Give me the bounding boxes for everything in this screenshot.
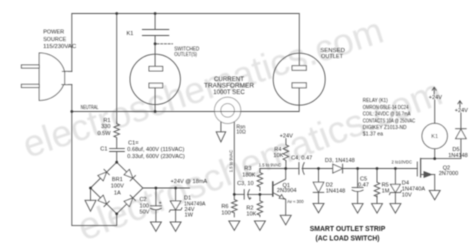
svg-text:RELAY (K1): RELAY (K1) (363, 98, 388, 104)
svg-text:CONTACTS 10A @ 250VAC: CONTACTS 10A @ 250VAC (363, 118, 415, 124)
svg-text:1.5 to 9VAC: 1.5 to 9VAC (259, 162, 281, 167)
svg-text:POWER: POWER (43, 29, 64, 35)
ground below R2 (254, 221, 265, 231)
junction +24V rail / C2 (155, 187, 158, 190)
svg-text:K1: K1 (127, 31, 134, 37)
resistor R4 10K (283, 143, 289, 161)
label C5 (358, 176, 369, 188)
label +24V relay (429, 95, 442, 101)
label +24V rail (171, 179, 208, 185)
svg-text:115/230VAC: 115/230VAC (43, 44, 76, 50)
label R1 (97, 118, 111, 137)
zener D1 1N4749A (169, 201, 182, 212)
wire R4 to collector node (285, 162, 287, 169)
label D4 (402, 181, 426, 199)
note relay spec (363, 98, 415, 138)
node Q1 collector (284, 167, 287, 170)
note C1 values (127, 141, 185, 160)
label BR1 (111, 177, 124, 196)
wire base node to C3 (234, 193, 244, 195)
svg-text:C3, 10: C3, 10 (237, 181, 253, 187)
svg-text:1.5 to 9VAC: 1.5 to 9VAC (229, 150, 234, 172)
label switched outlets (174, 47, 199, 58)
ground below C5 (352, 204, 363, 214)
wire relay coil to +24V (434, 100, 436, 123)
svg-text:+: + (159, 200, 162, 206)
watermark electroschematics.com lower (72, 72, 448, 246)
svg-text:0.68uf, 400V (115VAC): 0.68uf, 400V (115VAC) (127, 147, 184, 153)
wire R4 from +24V (285, 139, 287, 144)
label K1 contact (127, 31, 134, 37)
svg-text:SOURCE: SOURCE (43, 37, 66, 43)
ground below R5 (372, 204, 383, 214)
capacitor C4 0.47 (299, 163, 304, 175)
label D3 (325, 158, 355, 164)
svg-text:CURRENT: CURRENT (214, 77, 244, 83)
svg-text:+24V @ 18mA: +24V @ 18mA (171, 179, 208, 185)
relay coil K1 (422, 123, 447, 148)
wire plug hot stub (62, 70, 72, 72)
svg-text:0.5W: 0.5W (97, 131, 111, 137)
current transformer T1 core (214, 97, 240, 123)
wire CT secondary left (220, 122, 222, 132)
supply arrow +24V D5 (458, 101, 462, 107)
label R6 (221, 204, 230, 216)
svg-text:1W: 1W (185, 213, 194, 219)
callout dashed switched outlets (157, 43, 173, 45)
svg-text:180K: 180K (242, 172, 255, 178)
label R3 (242, 166, 255, 178)
wire C2 stub (155, 188, 157, 206)
wire D4 to ground (394, 193, 396, 204)
plus sign C2 (159, 200, 162, 206)
wire neutral vertical and bottom loop (72, 85, 117, 226)
plug prong upper (21, 65, 39, 68)
ground below C2 (150, 222, 161, 232)
svg-text:(AC LOAD SWITCH): (AC LOAD SWITCH) (316, 233, 380, 242)
svg-text:10Ω: 10Ω (236, 129, 246, 135)
switched outlet slot top (149, 66, 163, 71)
svg-text:TRANSFORMER: TRANSFORMER (204, 84, 255, 90)
wire R5 stub (376, 169, 378, 182)
svg-text:1M: 1M (382, 189, 390, 195)
mosfet Q2 2N7000 (417, 159, 434, 178)
svg-text:1N4148: 1N4148 (448, 153, 468, 159)
ground below D1 (170, 222, 181, 232)
svg-text:0.33uf, 600V (230VAC): 0.33uf, 600V (230VAC) (127, 154, 185, 160)
svg-text:C1: C1 (100, 147, 107, 153)
label Q2 (439, 165, 459, 177)
junction +24V rail / D1 (174, 187, 177, 190)
svg-text:SMART OUTLET STRIP: SMART OUTLET STRIP (310, 224, 386, 233)
svg-text:D2: D2 (326, 182, 333, 188)
wire switched outlet to neutral (154, 88, 156, 112)
diode D2 1N4148 (313, 182, 324, 192)
ground below bridge (85, 200, 96, 211)
wire Q2 source to ground (434, 175, 436, 191)
wire D2 to ground (318, 192, 320, 203)
svg-text:100: 100 (221, 210, 230, 216)
junction signal rail / R5 (376, 167, 379, 170)
wire D5 to +24V (460, 113, 462, 129)
switched outlet slot bottom (149, 83, 163, 88)
wire R1 feed from rail (116, 14, 118, 123)
resistor R1 330 0.5W (114, 122, 120, 139)
wire R5 to ground (376, 196, 378, 204)
svg-text:DIGIKEY Z1013-ND: DIGIKEY Z1013-ND (363, 125, 407, 131)
wire collector node to C4 (286, 168, 299, 170)
svg-text:R6: R6 (221, 204, 228, 210)
label D5 (448, 147, 468, 159)
wire D3 to Q2 gate (343, 168, 418, 170)
label 1.5 to 9VAC horizontal (259, 162, 281, 167)
wire top rail (72, 14, 299, 72)
svg-text:$1.37 ea: $1.37 ea (363, 132, 383, 138)
label C3 (237, 181, 253, 187)
label Rsn (236, 125, 246, 136)
ground below D2 (313, 203, 324, 213)
svg-text:2N3904: 2N3904 (277, 188, 297, 194)
sensed outlet circle (273, 53, 325, 105)
plug prong lower (21, 84, 39, 87)
label K1 coil (431, 134, 438, 140)
label neutral (81, 105, 99, 111)
svg-text:10K: 10K (273, 153, 283, 159)
plug P1 body (39, 53, 67, 101)
wire D2 stub (318, 169, 320, 183)
svg-text:1A: 1A (114, 190, 121, 196)
label C4 (291, 155, 312, 161)
junction switched outlet callout (154, 42, 157, 45)
wire C5 stub (357, 169, 359, 188)
svg-text:C1=: C1= (128, 141, 138, 147)
switched outlet circle (130, 54, 180, 104)
svg-text:OMRON G5LE-14 DC24: OMRON G5LE-14 DC24 (363, 105, 409, 111)
diode D3 1N4148 (333, 164, 343, 173)
label current transformer (204, 77, 255, 96)
svg-text:K1: K1 (431, 134, 438, 140)
label +24V D5 (455, 108, 468, 114)
diode D5 1N4148 (456, 129, 467, 139)
wire R1 to C1 (116, 139, 118, 149)
svg-text:C4, 0.47: C4, 0.47 (291, 155, 312, 161)
wire C3 to R3 node to Q1 base (260, 193, 273, 195)
svg-text:1000T SEC: 1000T SEC (213, 90, 245, 96)
svg-text:1N4740A: 1N4740A (402, 187, 426, 193)
svg-text:10V: 10V (402, 193, 412, 199)
node bridge AC top vertex (115, 161, 118, 164)
junction signal rail / C5 (356, 167, 359, 170)
junction base / R3 R2 (259, 193, 262, 196)
svg-text:2 to10VDC: 2 to10VDC (392, 159, 412, 164)
resistor R5 1M (374, 181, 380, 197)
resistor R2 10K (257, 194, 263, 216)
wire C5 to ground (357, 192, 359, 203)
wire +24V rail from bridge right vertex (143, 187, 190, 189)
label C2 (140, 197, 150, 215)
label D1 (184, 195, 206, 218)
capacitor C5 0.47 (352, 188, 363, 192)
label R4 (273, 147, 283, 159)
svg-text:OUTLET(S): OUTLET(S) (174, 52, 197, 58)
svg-text:D3, 1N4148: D3, 1N4148 (325, 158, 355, 164)
label Q1 (277, 183, 297, 194)
junction signal rail / D4 (394, 167, 397, 170)
node Q1 base / CT input (233, 193, 236, 196)
svg-text:Av ≈ 300: Av ≈ 300 (287, 199, 304, 204)
svg-text:R1: R1 (103, 118, 110, 124)
resistor R3 180K (257, 171, 263, 190)
ground below CT (216, 132, 226, 142)
watermark electroschematics.com upper (18, 10, 388, 166)
label power source (43, 29, 76, 50)
ground below Q1 emitter (280, 215, 291, 225)
junction signal rail / D2 (317, 167, 320, 170)
junction hot rail / R1 feed (115, 12, 118, 15)
svg-text:+24V: +24V (429, 95, 442, 101)
svg-text:10K: 10K (246, 212, 256, 218)
wire C1 to bridge (116, 152, 118, 163)
svg-text:NEUTRAL: NEUTRAL (81, 105, 99, 111)
wire R3 feedback from collector (260, 169, 286, 172)
ground below R6 (229, 221, 240, 231)
bridge rectifier BR1 diamond (91, 162, 143, 214)
wire C2 to ground (155, 211, 157, 222)
sensed outlet slot top (292, 66, 306, 71)
plus sign C3 (249, 196, 252, 202)
transistor Q1 2N3904 (273, 169, 286, 216)
capacitor C2 100 50V (150, 206, 161, 210)
wire D1 stub (175, 188, 177, 201)
zener D4 1N4740A (389, 184, 401, 194)
wire neutral through transformer (214, 111, 243, 113)
svg-text:R2: R2 (246, 206, 253, 212)
svg-text:2N7000: 2N7000 (439, 171, 459, 177)
title (310, 224, 386, 243)
label sensed outlet (320, 48, 345, 60)
wire neutral horizontal (72, 88, 299, 112)
svg-text:1N4148: 1N4148 (326, 189, 346, 195)
wire D4 stub (394, 169, 396, 185)
ground below D4 (390, 204, 401, 214)
svg-text:+: + (249, 196, 252, 202)
svg-text:OUTLET: OUTLET (321, 54, 344, 60)
label R5 (382, 182, 390, 194)
svg-text:C2: C2 (140, 197, 147, 203)
capacitor C3 10 (244, 190, 260, 200)
label 2 to 10VDC (392, 159, 412, 164)
label D2 (326, 182, 346, 194)
svg-text:R3: R3 (244, 166, 251, 172)
label C1 (100, 147, 107, 153)
label Av 300 (287, 199, 304, 204)
supply arrow +24V relay (432, 87, 436, 94)
svg-text:100V: 100V (111, 184, 124, 190)
resistor R6 100 (232, 194, 238, 217)
label +24V R4 (280, 133, 293, 139)
wire CT secondary right (233, 122, 235, 194)
svg-text:COIL: 24VDC @ 16.7mA: COIL: 24VDC @ 16.7mA (363, 112, 411, 118)
junction neutral / switched outlet return (154, 110, 157, 113)
junction Q2 drain / relay coil / D5 (433, 157, 436, 160)
wire Q2 drain to relay coil and D5 (435, 139, 461, 159)
node bridge minus vertex (89, 187, 92, 190)
svg-text:BR1: BR1 (112, 177, 123, 183)
svg-text:50V: 50V (140, 209, 150, 215)
svg-text:R5: R5 (382, 182, 389, 188)
capacitor C1 (110, 149, 125, 152)
svg-text:+24V: +24V (455, 108, 468, 114)
wire bridge left vertex to ground (90, 188, 92, 200)
label 1.5 to 9VAC vertical (229, 150, 234, 172)
junction hot rail / K1 contact branch (154, 12, 157, 15)
ground below Q2 (429, 190, 440, 200)
node bridge AC bottom vertex (115, 212, 118, 215)
relay contact K1 (142, 14, 168, 67)
wire D1 to ground (175, 210, 177, 222)
label R2 (246, 206, 256, 218)
svg-text:+24V: +24V (280, 133, 293, 139)
junction plug neutral / neutral line (70, 110, 73, 113)
sensed outlet slot bottom (292, 83, 306, 88)
svg-text:330: 330 (101, 124, 110, 130)
svg-text:0.47: 0.47 (358, 182, 369, 188)
wire C4 to D3 node (302, 168, 333, 170)
wire plug neutral stub (62, 84, 72, 86)
